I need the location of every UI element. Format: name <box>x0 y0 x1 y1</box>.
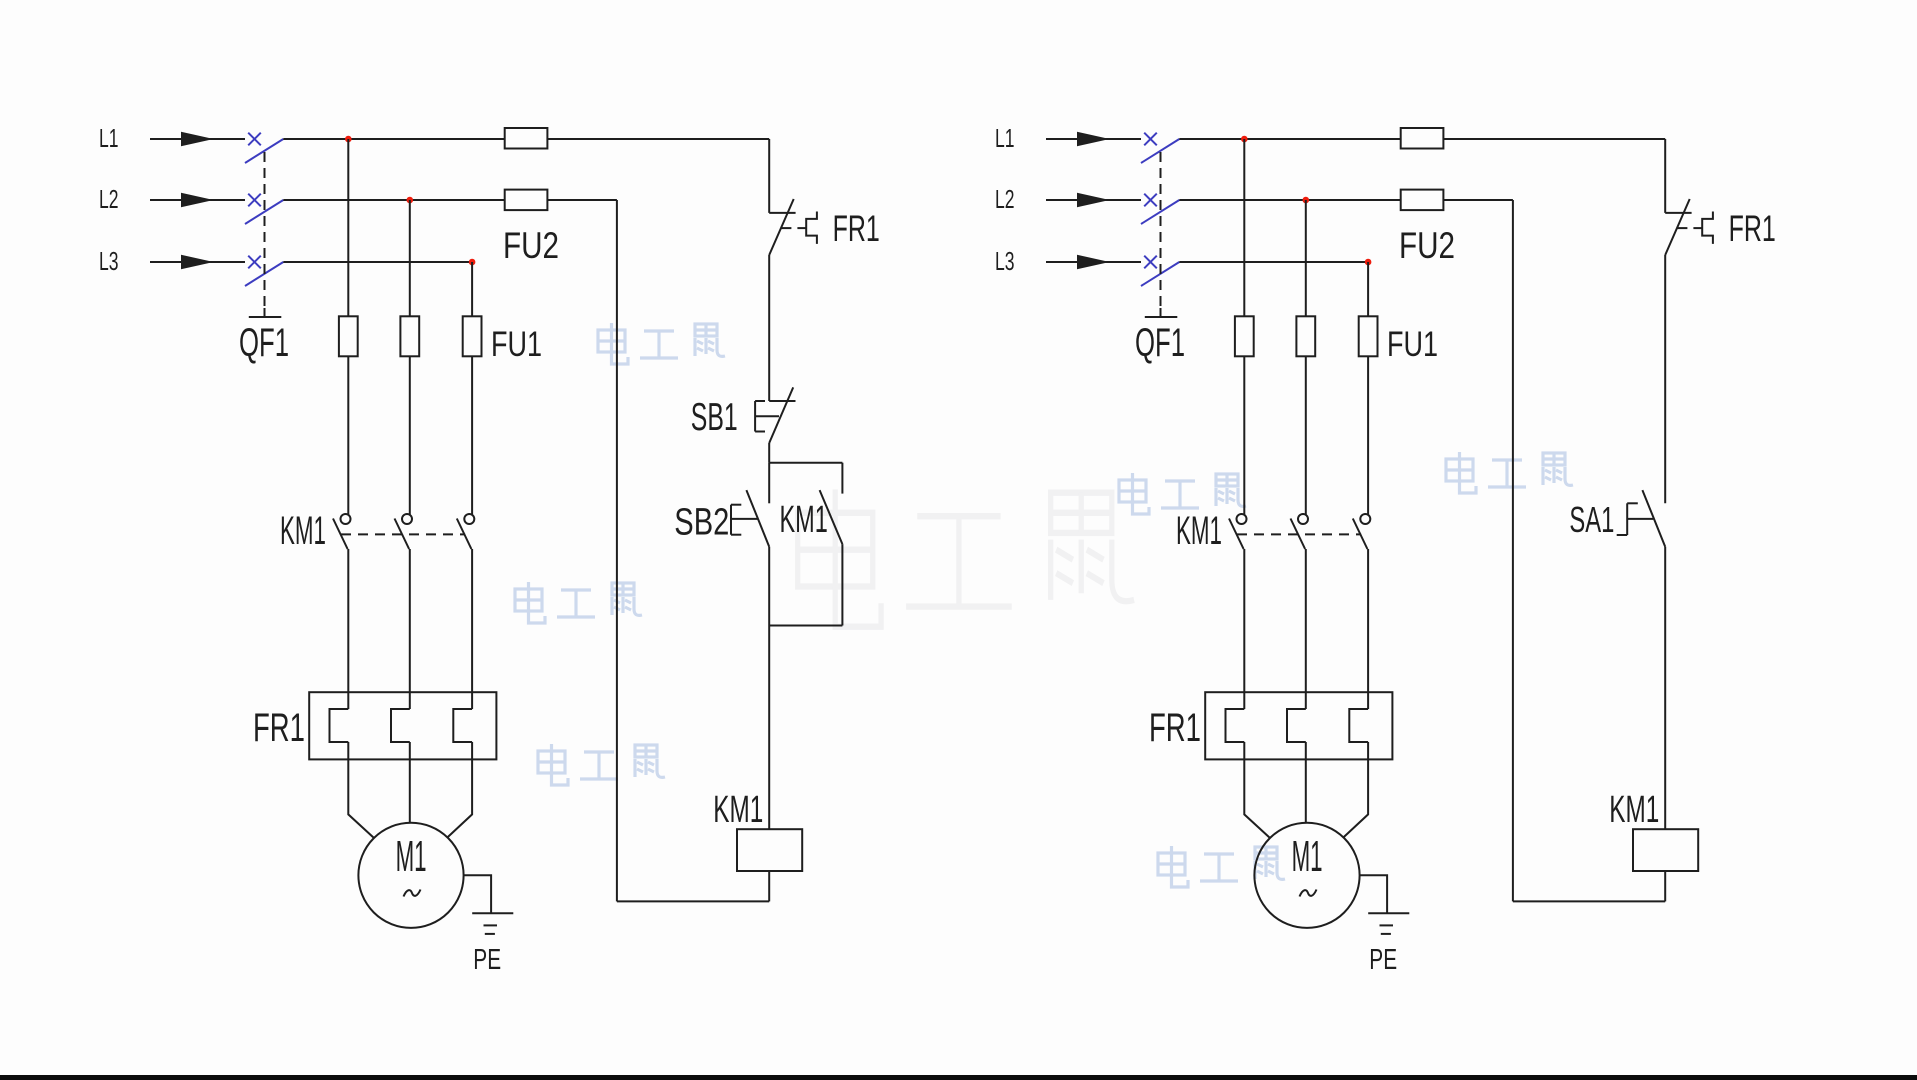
svg-text:FR1: FR1 <box>253 706 305 750</box>
breaker QF1 pole 3 blade (left) <box>245 262 283 286</box>
fuse FU2 element 2 (left) <box>505 190 548 211</box>
relay FR1 contact bar (left) <box>769 212 795 214</box>
svg-text:SB1: SB1 <box>691 396 738 439</box>
svg-text:SA1: SA1 <box>1569 499 1614 540</box>
wire return line (left) <box>616 200 618 901</box>
wire L2 incoming (right) <box>1046 199 1141 201</box>
svg-text:FR1: FR1 <box>833 208 880 249</box>
wire motor lead 3 (right) <box>1343 742 1368 838</box>
watermark small 6 <box>1158 846 1285 887</box>
motor M1 AC tilde (right) <box>1300 890 1317 897</box>
pushbutton SB1 blade (left) <box>769 387 793 443</box>
svg-text:M1: M1 <box>396 832 427 881</box>
relay FR1 heater box (left) <box>309 692 496 759</box>
wire L3 incoming (left) <box>150 261 245 263</box>
wire motor to ground (left) <box>464 875 492 913</box>
contactor KM1 linkage dashed (right) <box>1237 533 1361 535</box>
wire column 2 down to FU1 (left) <box>409 200 411 316</box>
relay FR1 contact tick (left) <box>781 227 792 229</box>
wire L3 QF1 to node (left) <box>283 261 472 263</box>
contactor KM1 main contact 2 (left) <box>402 514 412 524</box>
svg-text:L1: L1 <box>995 123 1015 153</box>
wire branch right upper (left) <box>841 463 843 494</box>
wire SA1 to coil (right) <box>1664 547 1666 830</box>
breaker QF1 pole 3 contact cross (left) <box>248 256 261 269</box>
wire control drop (right) <box>1664 139 1666 213</box>
wire L3 incoming (right) <box>1046 261 1141 263</box>
breaker QF1 operator bar (right) <box>1160 308 1162 317</box>
ground PE symbol (right) <box>1368 912 1409 914</box>
relay FR1 contact blade (left) <box>769 199 794 255</box>
watermark small 1 <box>598 323 725 364</box>
wire L3 QF1 to node (right) <box>1179 261 1368 263</box>
wire column 1 FU1 to KM1 (right) <box>1243 356 1245 515</box>
wire column 2 FU1 to KM1 (left) <box>409 356 411 515</box>
wire return line (right) <box>1512 200 1514 901</box>
wire column 1 KM1 to FR1 (right) <box>1243 549 1245 709</box>
svg-text:L3: L3 <box>99 246 119 276</box>
svg-text:L2: L2 <box>99 184 119 214</box>
fuse FU1 element 2 (left) <box>400 316 419 356</box>
wire column 1 down to FU1 (left) <box>347 139 349 316</box>
wire L1 QF1 to FU2 (left) <box>283 138 504 140</box>
svg-text:FR1: FR1 <box>1149 706 1201 750</box>
breaker QF1 pole 1 contact cross (right) <box>1144 133 1157 146</box>
switch SA1 actuator (right) <box>1626 503 1628 535</box>
node junction dot L3 (right) <box>1365 259 1372 266</box>
svg-text:KM1: KM1 <box>1609 789 1659 831</box>
node junction dot L2 (right) <box>1303 197 1310 204</box>
svg-text:KM1: KM1 <box>713 789 763 831</box>
node junction dot L1 (left) <box>345 136 352 143</box>
wire bottom return (right) <box>1513 900 1665 902</box>
wire column 3 FU1 to KM1 (left) <box>471 356 473 515</box>
switch SA1 blade (right) <box>1642 490 1665 547</box>
svg-text:M1: M1 <box>1292 832 1323 881</box>
wire control FR1 to SB1 (left) <box>768 255 770 401</box>
relay FR1 heater element 2 (left) <box>391 709 410 742</box>
svg-text:KM1: KM1 <box>1176 509 1222 553</box>
svg-text:L2: L2 <box>995 184 1015 214</box>
contactor KM1 main contact 3 (left) <box>464 514 474 524</box>
wire column 3 down to FU1 (left) <box>471 262 473 316</box>
contactor KM1 coil (right) <box>1633 829 1698 871</box>
relay FR1 heater element 1 (left) <box>330 709 349 742</box>
watermark small 5 <box>1446 452 1573 493</box>
arrow L3 (right) <box>1077 255 1110 269</box>
relay FR1 contact tick (right) <box>1677 227 1688 229</box>
wire L1 incoming (left) <box>150 138 245 140</box>
svg-text:PE: PE <box>473 944 501 976</box>
arrow L2 (left) <box>181 193 214 207</box>
wire L2 FU2 to return (left) <box>547 199 617 201</box>
pushbutton SB2 blade (left) <box>746 490 769 547</box>
wire column 1 KM1 to FR1 (left) <box>347 549 349 709</box>
breaker QF1 pole 2 contact cross (right) <box>1144 194 1157 207</box>
wire column 1 down to FU1 (right) <box>1243 139 1245 316</box>
pushbutton SB1 contact bar (left) <box>769 400 795 402</box>
wire L2 FU2 to return (right) <box>1443 199 1513 201</box>
node junction dot L1 (right) <box>1241 136 1248 143</box>
wire branch bottom (left) <box>769 625 842 627</box>
fuse FU2 element 2 (right) <box>1401 190 1444 211</box>
fuse FU1 element 1 (left) <box>339 316 358 356</box>
wire L2 incoming (left) <box>150 199 245 201</box>
motor M1 circle (left) <box>358 823 463 928</box>
breaker QF1 linkage dashed (left) <box>264 152 266 308</box>
wire coil to bottom (right) <box>1664 871 1666 901</box>
fuse FU2 element 1 (right) <box>1401 128 1444 149</box>
svg-text:KM1: KM1 <box>780 499 828 541</box>
relay FR1 heater box (right) <box>1205 692 1392 759</box>
wire L1 FU2 to control (right) <box>1443 138 1665 140</box>
wire column 3 KM1 to FR1 (left) <box>471 549 473 709</box>
contactor KM1 coil (left) <box>737 829 802 871</box>
svg-text:KM1: KM1 <box>280 509 326 553</box>
fuse FU2 element 1 (left) <box>505 128 548 149</box>
motor M1 AC tilde (left) <box>404 890 421 897</box>
wire column 3 KM1 to FR1 (right) <box>1367 549 1369 709</box>
relay FR1 heater element 1 (right) <box>1226 709 1245 742</box>
wire coil to bottom (left) <box>768 871 770 901</box>
ground PE symbol (left) <box>472 912 513 914</box>
svg-text:FU2: FU2 <box>503 225 559 266</box>
wire L2 QF1 to FU2 (right) <box>1179 199 1400 201</box>
relay FR1 actuator (left) <box>806 212 817 244</box>
wire column 1 FU1 to KM1 (left) <box>347 356 349 515</box>
wire SB1 to branch (left) <box>768 443 770 463</box>
wire bottom return (left) <box>617 900 769 902</box>
svg-text:FU1: FU1 <box>491 325 542 364</box>
svg-text:SB2: SB2 <box>674 502 729 544</box>
wire motor lead 2 (left) <box>409 742 411 823</box>
fuse FU1 element 3 (left) <box>463 316 482 356</box>
wire SB2 to coil (left) <box>768 547 770 830</box>
contactor KM1 linkage dashed (left) <box>341 533 465 535</box>
contactor KM1 main contact 3 (right) <box>1360 514 1370 524</box>
svg-text:PE: PE <box>1369 944 1397 976</box>
motor M1 circle (right) <box>1254 823 1359 928</box>
contactor KM1 main contact 1 (left) <box>341 514 351 524</box>
arrow L1 (right) <box>1077 132 1110 146</box>
wire motor lead 3 (left) <box>447 742 472 838</box>
wire branch top (left) <box>769 462 842 464</box>
wire column 2 FU1 to KM1 (right) <box>1305 356 1307 515</box>
watermark small 4 <box>1119 473 1246 514</box>
relay FR1 linkage dash (right) <box>1693 227 1702 229</box>
relay FR1 contact blade (right) <box>1665 199 1690 255</box>
relay FR1 heater element 3 (right) <box>1349 709 1368 742</box>
wire L1 QF1 to FU2 (right) <box>1179 138 1400 140</box>
pushbutton SB1 actuator (left) <box>754 401 756 432</box>
svg-text:QF1: QF1 <box>239 321 289 365</box>
relay FR1 linkage dash (left) <box>797 227 806 229</box>
arrow L1 (left) <box>181 132 214 146</box>
breaker QF1 pole 3 contact cross (right) <box>1144 256 1157 269</box>
relay FR1 heater element 2 (right) <box>1287 709 1306 742</box>
wire control FR1 to SA1 (right) <box>1664 255 1666 503</box>
node junction dot L3 (left) <box>469 259 476 266</box>
fuse FU1 element 2 (right) <box>1296 316 1315 356</box>
fuse FU1 element 3 (right) <box>1359 316 1378 356</box>
pushbutton SB2 actuator (left) <box>730 505 732 535</box>
wire motor lead 1 (right) <box>1244 742 1270 838</box>
wire column 3 down to FU1 (right) <box>1367 262 1369 316</box>
contactor KM1 aux blade (left) <box>820 490 843 544</box>
breaker QF1 pole 2 blade (right) <box>1141 200 1179 224</box>
watermark small 2 <box>515 582 642 623</box>
wire motor to ground (right) <box>1360 875 1388 913</box>
wire L1 FU2 to control (left) <box>547 138 769 140</box>
wire motor lead 2 (right) <box>1305 742 1307 823</box>
arrow L2 (right) <box>1077 193 1110 207</box>
watermark big center <box>798 489 1134 626</box>
relay FR1 actuator (right) <box>1702 212 1713 244</box>
relay FR1 heater element 3 (left) <box>453 709 472 742</box>
wire L1 incoming (right) <box>1046 138 1141 140</box>
breaker QF1 pole 2 contact cross (left) <box>248 194 261 207</box>
breaker QF1 pole 1 contact cross (left) <box>248 133 261 146</box>
wire column 2 KM1 to FR1 (left) <box>409 549 411 709</box>
arrow L3 (left) <box>181 255 214 269</box>
pushbutton SB2 top wire (left) <box>768 463 770 504</box>
svg-text:FR1: FR1 <box>1729 208 1776 249</box>
wire column 2 KM1 to FR1 (right) <box>1305 549 1307 709</box>
contactor KM1 main contact 1 (right) <box>1237 514 1247 524</box>
wire column 2 down to FU1 (right) <box>1305 200 1307 316</box>
wire L2 QF1 to FU2 (left) <box>283 199 504 201</box>
breaker QF1 linkage dashed (right) <box>1160 152 1162 308</box>
wire column 3 FU1 to KM1 (right) <box>1367 356 1369 515</box>
contactor KM1 main contact 2 (right) <box>1298 514 1308 524</box>
fuse FU1 element 1 (right) <box>1235 316 1254 356</box>
breaker QF1 operator bar (left) <box>264 308 266 317</box>
breaker QF1 pole 2 blade (left) <box>245 200 283 224</box>
wire control drop (left) <box>768 139 770 213</box>
watermark small 3 <box>538 744 665 785</box>
breaker QF1 pole 3 blade (right) <box>1141 262 1179 286</box>
node junction dot L2 (left) <box>407 197 414 204</box>
wire motor lead 1 (left) <box>348 742 374 838</box>
bottom letterbox bar <box>0 1075 1917 1080</box>
relay FR1 contact bar (right) <box>1665 212 1691 214</box>
svg-text:L1: L1 <box>99 123 119 153</box>
svg-text:QF1: QF1 <box>1135 321 1185 365</box>
breaker QF1 pole 1 blade (left) <box>245 139 283 163</box>
wire branch right lower (left) <box>841 544 843 625</box>
breaker QF1 pole 1 blade (right) <box>1141 139 1179 163</box>
svg-text:L3: L3 <box>995 246 1015 276</box>
svg-text:FU2: FU2 <box>1399 225 1455 266</box>
svg-text:FU1: FU1 <box>1387 325 1438 364</box>
